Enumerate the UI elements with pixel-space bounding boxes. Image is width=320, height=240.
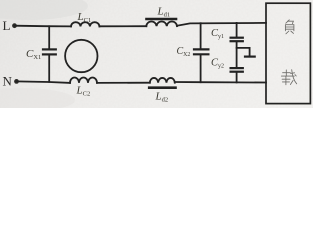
terminal N dot bbox=[14, 79, 19, 84]
wire bottom rail left bbox=[17, 81, 71, 83]
inductor Ld2 winding bbox=[150, 78, 175, 83]
capacitor CX2 bbox=[194, 23, 208, 82]
ground bbox=[245, 55, 255, 57]
capacitor Cy2 bbox=[231, 68, 243, 82]
wire bottom rail right bbox=[175, 81, 266, 84]
wire top rail right bbox=[177, 23, 266, 26]
svg-text:L: L bbox=[3, 18, 11, 33]
terminal L dot bbox=[12, 23, 17, 28]
load text glyph FU (load) bbox=[285, 20, 294, 34]
inductor LC1 winding bbox=[71, 22, 99, 26]
load box bbox=[266, 3, 310, 103]
inductor Ld1 winding bbox=[146, 22, 177, 27]
inductor LC2 winding bbox=[70, 78, 97, 83]
load text glyph ZAI (carry) bbox=[281, 70, 296, 85]
wire bottom rail mid bbox=[97, 82, 150, 84]
wire top rail mid bbox=[99, 25, 146, 27]
wire top rail left bbox=[15, 25, 72, 28]
capacitor Cy1 bbox=[231, 23, 243, 67]
inductor Ld2 core bar bbox=[149, 86, 175, 89]
capacitor CX1 bbox=[43, 26, 56, 82]
common-mode choke core bbox=[65, 40, 97, 72]
inductor Ld1 core bar bbox=[147, 18, 177, 21]
wire to ground bbox=[237, 48, 250, 56]
svg-text:N: N bbox=[3, 74, 13, 89]
